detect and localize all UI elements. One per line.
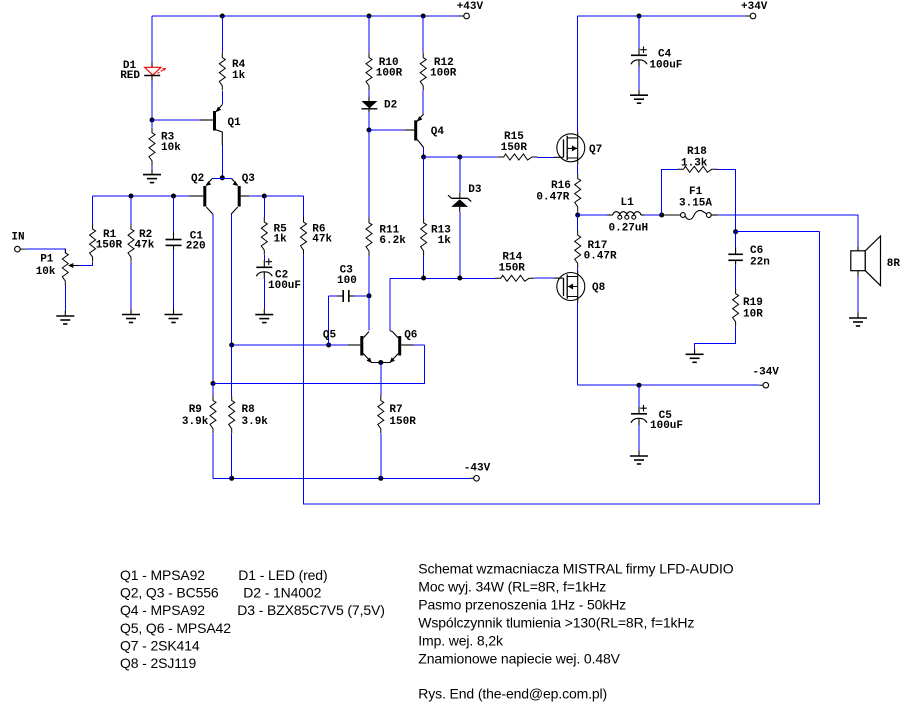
capacitor C3 <box>337 265 357 303</box>
mosfet Q7 <box>554 132 602 165</box>
svg-text:Q8: Q8 <box>592 282 606 294</box>
fuse F1 <box>662 186 719 220</box>
capacitor C4 <box>631 46 682 71</box>
wire +34V to Q7 drain <box>577 16 579 132</box>
wire R14 to Q8 gate <box>534 277 554 279</box>
junction node A (D1/R3/Q1 base) <box>150 118 155 123</box>
svg-text:Imp. wej. 8,2k: Imp. wej. 8,2k <box>418 632 504 648</box>
wire output node to R17 <box>577 215 579 231</box>
wire node A to Q1 base <box>152 119 200 121</box>
resistor R19 <box>733 289 764 327</box>
svg-text:+43V: +43V <box>457 1 484 13</box>
wire R5 to C2 <box>263 255 265 260</box>
junction C4/+34V <box>637 14 642 19</box>
svg-text:150R: 150R <box>499 262 526 274</box>
resistor R16 <box>536 174 580 212</box>
capacitor C2 <box>256 258 301 292</box>
resistor R4 <box>219 53 245 91</box>
svg-text:-43V: -43V <box>464 463 491 475</box>
wire gate line to R14 <box>390 277 495 279</box>
wire R13 to gate line <box>423 256 425 279</box>
wire Q3 base rail <box>249 195 303 197</box>
wire +34V rail <box>578 15 751 17</box>
wire +43V to D1 <box>151 16 153 62</box>
ground C2 <box>255 309 273 323</box>
junction C3/R11 <box>367 293 372 298</box>
svg-text:10R: 10R <box>743 308 763 320</box>
text parts list diodes <box>237 567 384 618</box>
wire R15 to Q7 gate <box>537 156 554 158</box>
svg-text:Q4 - MPSA92: Q4 - MPSA92 <box>120 602 205 618</box>
junction R10/+43V <box>367 14 372 19</box>
junction node D (D3 top) <box>457 155 462 160</box>
wire R19 to ground <box>695 326 736 348</box>
wire C3 node to Q5 collector <box>368 296 370 331</box>
svg-text:F1: F1 <box>689 186 703 198</box>
svg-text:R7: R7 <box>389 404 402 416</box>
wire R2 branch <box>130 196 132 224</box>
svg-text:R8: R8 <box>242 404 256 416</box>
wire R6 feedback line <box>304 232 820 504</box>
wire Q6 base blue <box>414 344 425 346</box>
wire R17 to Q8 drain <box>577 268 579 271</box>
wire output node to L1 <box>578 214 608 216</box>
svg-text:Q7 - 2SK414: Q7 - 2SK414 <box>120 637 200 653</box>
capacitor C6 <box>728 245 770 268</box>
wire R8 to -43V <box>231 433 233 478</box>
wire speaker to ground <box>857 276 859 313</box>
svg-text:100uF: 100uF <box>650 420 683 432</box>
resistor R6 <box>301 217 333 255</box>
resistor R14 <box>495 252 535 282</box>
svg-text:1.3k: 1.3k <box>681 158 708 170</box>
svg-text:Q3: Q3 <box>242 173 256 185</box>
svg-text:IN: IN <box>11 232 24 244</box>
wire node A to R3 <box>151 120 153 128</box>
LED D1 <box>120 60 166 82</box>
wire NFB to C6 <box>735 232 737 251</box>
svg-text:R18: R18 <box>687 146 707 158</box>
transistor Q2 <box>190 173 214 214</box>
wire Q4 collector to node C <box>423 148 425 158</box>
svg-text:Q2: Q2 <box>191 173 204 185</box>
wire Q2 collector drop <box>212 214 214 383</box>
resistor R8 <box>229 396 269 434</box>
svg-text:Rys. End (the-end@ep.com.pl): Rys. End (the-end@ep.com.pl) <box>418 685 607 701</box>
terminal -34V <box>753 367 780 388</box>
text signature <box>418 685 607 701</box>
terminal -43V <box>464 463 491 481</box>
pot P1 wiper arrow <box>68 263 78 268</box>
svg-text:Q2, Q3 - BC556: Q2, Q3 - BC556 <box>120 585 219 601</box>
svg-text:100R: 100R <box>376 68 403 80</box>
ground C1 <box>165 309 183 323</box>
junction C3 left <box>326 343 331 348</box>
svg-text:1k: 1k <box>438 235 452 247</box>
wire C3 left lead <box>329 295 338 297</box>
resistor R3 <box>149 128 181 166</box>
wire D1 to node A <box>151 81 153 120</box>
svg-text:150R: 150R <box>501 142 528 154</box>
wire D2 to node B <box>368 112 370 130</box>
svg-text:R16: R16 <box>551 180 571 192</box>
svg-text:P1: P1 <box>40 254 54 266</box>
terminal +43V <box>457 1 484 19</box>
junction R2 top <box>129 194 134 199</box>
wire R10 to D2 <box>368 90 370 96</box>
ground C4 <box>630 90 648 104</box>
resistor R11 <box>366 218 406 256</box>
svg-text:150R: 150R <box>389 416 416 428</box>
junction R4/+43V <box>220 14 225 19</box>
svg-text:Q7: Q7 <box>589 144 602 156</box>
wire Q1 emitter to R4 <box>221 91 223 105</box>
junction output node (R16/R17/L1) <box>575 213 580 218</box>
wire Q1 collector to Q2/Q3 <box>221 145 223 178</box>
wire C6 to R19 <box>735 265 737 289</box>
svg-text:Znamionowe napiecie wej. 0.48V: Znamionowe napiecie wej. 0.48V <box>418 650 620 666</box>
resistor R10 <box>366 53 403 91</box>
resistor R9 <box>182 396 216 434</box>
svg-text:100uF: 100uF <box>649 60 682 72</box>
svg-text:+34V: +34V <box>741 1 768 13</box>
svg-text:Q5, Q6 - MPSA42: Q5, Q6 - MPSA42 <box>120 620 231 636</box>
wire P1 to ground <box>64 286 66 311</box>
text description <box>418 560 733 666</box>
wire -43V rail <box>213 433 474 478</box>
wire Q8 source to -34V <box>577 303 579 386</box>
svg-text:D3 - BZX85C7V5 (7,5V): D3 - BZX85C7V5 (7,5V) <box>237 602 384 618</box>
inductor L1 <box>607 197 648 235</box>
junction Q5 base line <box>229 343 234 348</box>
ground speaker <box>849 313 867 327</box>
junction C5/-34V <box>637 383 642 388</box>
wire R1 to P1 wiper <box>78 262 93 266</box>
speaker 8R <box>851 236 901 286</box>
svg-text:100R: 100R <box>430 68 457 80</box>
svg-text:8R: 8R <box>887 258 901 270</box>
wire R5 branch <box>263 196 265 217</box>
svg-text:Wspólczynnik tlumienia >130(RL: Wspólczynnik tlumienia >130(RL=8R, f=1kH… <box>418 614 694 630</box>
svg-text:Q1: Q1 <box>228 117 242 129</box>
wire Q7 source to R16 <box>577 165 579 174</box>
resistor R12 <box>420 53 457 91</box>
wire rail to R1 <box>92 196 94 224</box>
svg-text:3.9k: 3.9k <box>182 416 209 428</box>
wire R13 branch <box>423 157 425 218</box>
svg-text:100: 100 <box>337 275 357 287</box>
wire Q6 collector riser <box>389 278 391 330</box>
wire +43V to R12 <box>422 16 424 53</box>
junction node C (Q4/R13) <box>421 155 426 160</box>
wire C5 to ground <box>638 425 640 450</box>
svg-text:D2: D2 <box>384 100 397 112</box>
wire emitters to R7 <box>380 363 382 397</box>
transistor Q3 <box>231 173 255 214</box>
svg-text:0.27uH: 0.27uH <box>609 223 649 235</box>
capacitor C1 <box>166 231 206 253</box>
potentiometer P1 <box>36 249 69 286</box>
wire R7 to -43V <box>380 433 382 478</box>
transistor Q4 <box>405 114 445 148</box>
transistor Q6 <box>381 329 418 363</box>
wire C1 branch <box>173 196 175 233</box>
svg-text:L1: L1 <box>621 197 635 209</box>
junction R5 top <box>262 194 267 199</box>
junction R8/-43V <box>229 476 234 481</box>
wire NFB node to feedback <box>736 231 820 233</box>
ground R3 <box>143 169 161 183</box>
wire input rail left <box>93 195 190 197</box>
svg-text:D1 - LED (red): D1 - LED (red) <box>238 567 327 583</box>
zener diode D3 <box>448 184 482 212</box>
svg-text:150R: 150R <box>96 239 123 251</box>
svg-text:10k: 10k <box>161 142 181 154</box>
wire node D to R15 <box>460 156 498 158</box>
resistor R7 <box>378 396 416 434</box>
resistor R17 <box>575 230 617 268</box>
wire node B to Q4 base <box>369 129 405 131</box>
wire +34V to C4 <box>638 16 640 49</box>
svg-text:Q8 - 2SJ119: Q8 - 2SJ119 <box>120 655 196 671</box>
wire R2 to ground <box>130 262 132 309</box>
wire C4 to ground <box>638 67 640 90</box>
svg-text:Q5: Q5 <box>323 329 337 341</box>
wire R9 branch <box>212 384 214 396</box>
wire IN to P1 <box>26 249 66 253</box>
wire R3 to ground <box>151 166 153 170</box>
wire R8 branch <box>231 345 233 396</box>
junction D3/gate line <box>457 276 462 281</box>
junction R7/-43V <box>378 476 383 481</box>
wire C2 to ground <box>263 279 265 310</box>
svg-text:C6: C6 <box>750 245 763 257</box>
wire -34V to C5 <box>638 385 640 407</box>
wire Q5 base line <box>232 344 348 346</box>
svg-text:3.15A: 3.15A <box>679 198 712 210</box>
svg-text:Q6: Q6 <box>404 329 417 341</box>
svg-text:Q1 - MPSA92: Q1 - MPSA92 <box>120 567 205 583</box>
wire C3 right lead <box>355 295 370 297</box>
transistor Q5 <box>323 329 381 363</box>
svg-text:Schemat wzmacniacza MISTRAL fi: Schemat wzmacniacza MISTRAL firmy LFD-AU… <box>418 560 733 576</box>
svg-text:0.47R: 0.47R <box>536 192 569 204</box>
wire +43V to R10 <box>368 16 370 53</box>
ground C5 <box>630 451 648 465</box>
wire rail to R6 <box>303 196 305 217</box>
svg-text:D3: D3 <box>468 184 482 196</box>
svg-text:RED: RED <box>120 70 140 82</box>
svg-text:D2 - 1N4002: D2 - 1N4002 <box>243 585 321 601</box>
svg-text:R9: R9 <box>189 404 202 416</box>
wire node C to node D <box>424 156 460 158</box>
resistor R18 <box>678 146 718 172</box>
svg-text:100uF: 100uF <box>268 280 301 292</box>
resistor R2 <box>128 224 155 262</box>
wire -34V rail <box>578 384 763 386</box>
wire +43V rail <box>152 15 464 17</box>
svg-text:3.9k: 3.9k <box>242 416 269 428</box>
junction Q6 base line <box>211 381 216 386</box>
wire R11 branch <box>368 130 370 218</box>
wire C1 to ground <box>173 250 175 309</box>
wire Q2-Q3 emitter bus <box>212 178 231 180</box>
junction R12/+43V <box>421 14 426 19</box>
junction NFB node (R18/C6/feedback) <box>733 229 738 234</box>
ground R2 <box>122 309 140 323</box>
junction R13/gate line <box>421 276 426 281</box>
svg-text:1k: 1k <box>232 70 246 82</box>
wire L1 to fuse node <box>644 214 662 216</box>
capacitor C5 <box>631 405 683 432</box>
svg-text:220: 220 <box>186 240 206 252</box>
wire R11 to C3 node <box>368 256 370 296</box>
diode D2 <box>362 97 398 112</box>
wire fuse node to R18 <box>662 169 678 215</box>
junction C1 top <box>171 194 176 199</box>
transistor Q1 <box>200 105 241 145</box>
terminal +34V <box>741 1 768 19</box>
svg-text:6.2k: 6.2k <box>379 235 406 247</box>
resistor R1 <box>90 224 123 262</box>
svg-text:47k: 47k <box>135 239 155 251</box>
resistor R15 <box>498 131 538 160</box>
junction Q1/Q2/Q3 node <box>220 175 225 180</box>
svg-text:1k: 1k <box>274 234 288 246</box>
svg-text:0.47R: 0.47R <box>584 251 617 263</box>
terminal IN <box>11 232 25 252</box>
mosfet Q8 <box>554 271 606 303</box>
wire R12 to Q4 emitter <box>422 90 424 114</box>
svg-text:Moc wyj. 34W (RL=8R, f=1kHz: Moc wyj. 34W (RL=8R, f=1kHz <box>418 578 606 594</box>
wire R16 to output node <box>577 211 579 215</box>
wire Q3 collector drop <box>231 214 233 345</box>
wire Q5 base blue <box>329 344 348 346</box>
junction fuse node (L1/F1/R18) <box>659 213 664 218</box>
svg-text:22n: 22n <box>750 256 770 268</box>
wire node D to D3 <box>459 157 461 193</box>
svg-text:-34V: -34V <box>753 367 780 379</box>
svg-text:47k: 47k <box>312 234 332 246</box>
ground P1 <box>56 311 74 325</box>
junction Q5/Q6 emitters <box>378 360 383 365</box>
resistor R5 <box>261 217 287 255</box>
text parts list transistors <box>120 567 231 671</box>
wire F1 to speaker <box>718 215 858 247</box>
svg-text:Pasmo przenoszenia 1Hz - 50kHz: Pasmo przenoszenia 1Hz - 50kHz <box>418 596 626 612</box>
ground R19 <box>686 349 704 363</box>
wire +43V to R4 <box>221 16 223 53</box>
resistor R13 <box>421 218 452 256</box>
svg-text:10k: 10k <box>36 266 56 278</box>
svg-text:R19: R19 <box>743 297 763 309</box>
junction node B (D2/R11/Q4 base) <box>367 128 372 133</box>
wire C3 left drop <box>328 296 330 345</box>
wire D3 to gate line <box>459 212 461 278</box>
wire R18 to NFB node <box>717 169 736 231</box>
wire Q6 base line <box>213 345 424 384</box>
svg-text:Q4: Q4 <box>431 126 445 138</box>
